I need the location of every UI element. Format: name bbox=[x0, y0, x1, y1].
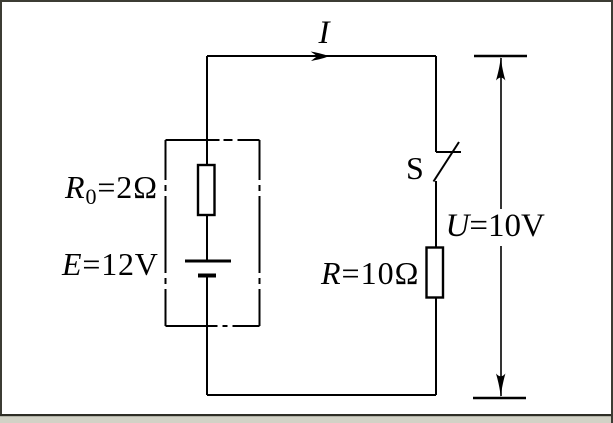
svg-text:R=10Ω: R=10Ω bbox=[320, 255, 419, 291]
svg-text:S: S bbox=[406, 150, 424, 186]
svg-text:E=12V: E=12V bbox=[61, 246, 159, 282]
svg-text:U=10V: U=10V bbox=[446, 208, 545, 244]
svg-text:I: I bbox=[318, 15, 332, 51]
svg-text:R0=2Ω: R0=2Ω bbox=[64, 169, 158, 209]
